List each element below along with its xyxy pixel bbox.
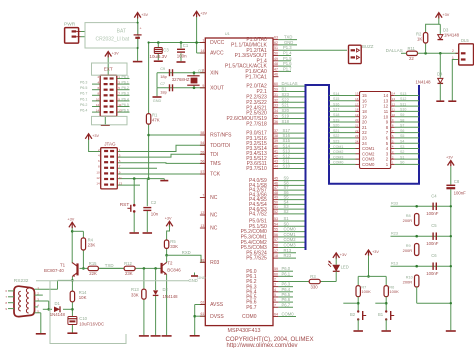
svg-text:S2: S2 xyxy=(284,209,290,214)
svg-text:10uF/16VDC: 10uF/16VDC xyxy=(79,321,104,326)
svg-text:B1: B1 xyxy=(282,87,288,92)
svg-text:AVSS: AVSS xyxy=(210,302,224,308)
svg-text:P6.2: P6.2 xyxy=(80,103,87,107)
svg-text:T1: T1 xyxy=(60,263,66,268)
svg-text:S0: S0 xyxy=(284,221,290,226)
svg-text:BUZZ: BUZZ xyxy=(362,44,374,49)
svg-text:57: 57 xyxy=(201,170,205,174)
svg-text:C4: C4 xyxy=(431,193,437,198)
svg-text:R15: R15 xyxy=(89,261,97,266)
svg-text:P6.3: P6.3 xyxy=(122,92,129,96)
svg-text:S9: S9 xyxy=(400,113,404,117)
svg-text:12: 12 xyxy=(383,104,388,109)
svg-text:R3: R3 xyxy=(310,274,316,279)
svg-text:BC807-40: BC807-40 xyxy=(44,268,64,273)
svg-text:DL5: DL5 xyxy=(461,38,469,43)
svg-text:S13: S13 xyxy=(400,92,406,96)
svg-text:BC846: BC846 xyxy=(167,268,181,273)
svg-text:42: 42 xyxy=(274,154,278,158)
svg-text:+3V: +3V xyxy=(372,250,379,254)
svg-text:COM0: COM0 xyxy=(242,314,257,320)
svg-text:49: 49 xyxy=(274,196,278,200)
svg-text:2: 2 xyxy=(452,49,454,53)
svg-text:S16: S16 xyxy=(333,102,339,106)
svg-text:U1: U1 xyxy=(225,31,231,36)
svg-text:17: 17 xyxy=(274,249,278,253)
svg-text:B1: B1 xyxy=(378,312,384,317)
svg-text:D2: D2 xyxy=(163,287,169,292)
svg-text:100nF: 100nF xyxy=(426,241,439,246)
svg-text:100nF: 100nF xyxy=(426,271,439,276)
svg-text:C10: C10 xyxy=(79,316,87,321)
svg-text:S0: S0 xyxy=(400,161,404,165)
svg-text:100K: 100K xyxy=(389,289,399,294)
svg-text:+3V: +3V xyxy=(446,156,453,160)
svg-text:PWR: PWR xyxy=(64,22,76,28)
svg-text:P6.5: P6.5 xyxy=(80,86,87,90)
svg-text:P6.2: P6.2 xyxy=(122,86,129,90)
svg-text:T2: T2 xyxy=(167,261,173,266)
svg-text:R23: R23 xyxy=(284,253,292,258)
svg-text:18: 18 xyxy=(362,109,367,114)
svg-text:55: 55 xyxy=(201,150,205,154)
svg-text:23K: 23K xyxy=(125,271,133,276)
svg-text:46: 46 xyxy=(274,181,278,185)
svg-text:18p: 18p xyxy=(160,74,167,79)
svg-text:11: 11 xyxy=(119,176,122,180)
svg-text:COPYRIGHT(C), 2004, OLIMEX: COPYRIGHT(C), 2004, OLIMEX xyxy=(226,336,314,343)
svg-text:COM3: COM3 xyxy=(333,155,343,159)
svg-text:10K: 10K xyxy=(79,295,87,300)
svg-text:1N4148: 1N4148 xyxy=(50,312,66,317)
svg-text:62: 62 xyxy=(274,41,278,45)
svg-text:47K: 47K xyxy=(152,117,160,122)
svg-text:10: 10 xyxy=(96,97,100,101)
svg-text:S18: S18 xyxy=(333,113,339,117)
svg-text:100nF: 100nF xyxy=(454,191,467,196)
svg-text:COM0: COM0 xyxy=(362,162,375,167)
svg-text:S20: S20 xyxy=(282,108,290,113)
svg-text:S10: S10 xyxy=(400,108,406,112)
svg-text:17: 17 xyxy=(355,102,359,106)
svg-text:+3V: +3V xyxy=(67,218,74,222)
svg-text:TCK: TCK xyxy=(210,172,221,178)
svg-text:53: 53 xyxy=(274,217,278,221)
svg-text:16: 16 xyxy=(355,97,359,101)
svg-text:RST/NFS: RST/NFS xyxy=(210,133,232,139)
svg-text:COM0: COM0 xyxy=(282,312,295,317)
svg-text:100n: 100n xyxy=(177,54,187,59)
svg-text:P6.7: P6.7 xyxy=(246,305,257,311)
svg-text:22: 22 xyxy=(409,56,414,61)
svg-text:10n: 10n xyxy=(151,212,159,217)
svg-text:39: 39 xyxy=(274,139,278,143)
svg-text:S23: S23 xyxy=(282,92,290,97)
svg-text:R03: R03 xyxy=(210,260,219,266)
svg-text:60: 60 xyxy=(274,272,278,276)
svg-text:LED: LED xyxy=(341,265,349,270)
svg-text:COM1: COM1 xyxy=(284,232,297,237)
svg-text:D4: D4 xyxy=(437,71,443,76)
svg-text:S1: S1 xyxy=(284,216,290,221)
svg-text:22K: 22K xyxy=(89,271,97,276)
svg-text:14: 14 xyxy=(201,49,205,53)
svg-text:COM2: COM2 xyxy=(284,237,297,242)
svg-text:20: 20 xyxy=(355,118,359,122)
svg-text:21: 21 xyxy=(362,125,367,130)
svg-text:24: 24 xyxy=(355,139,359,143)
svg-text:COM0: COM0 xyxy=(284,227,297,232)
svg-text:18: 18 xyxy=(274,254,278,258)
svg-text:1N4148: 1N4148 xyxy=(163,294,179,299)
svg-text:P1.5: P1.5 xyxy=(283,56,292,61)
svg-text:R23: R23 xyxy=(391,232,398,236)
svg-text:59: 59 xyxy=(274,267,278,271)
svg-text:+3V: +3V xyxy=(165,217,172,221)
svg-text:7: 7 xyxy=(274,303,276,307)
svg-text:41: 41 xyxy=(274,149,278,153)
svg-text:1: 1 xyxy=(202,39,204,43)
svg-text:54: 54 xyxy=(274,222,278,226)
svg-text:S14: S14 xyxy=(333,92,339,96)
svg-text:S1: S1 xyxy=(400,155,404,159)
svg-text:5: 5 xyxy=(274,293,276,297)
svg-text:NC: NC xyxy=(210,213,218,219)
svg-text:P6.7: P6.7 xyxy=(80,92,87,96)
svg-text:14: 14 xyxy=(392,92,396,96)
svg-text:P1.6: P1.6 xyxy=(283,61,292,66)
svg-text:S19: S19 xyxy=(282,114,290,119)
svg-text:100K: 100K xyxy=(361,289,371,294)
svg-text:31: 31 xyxy=(274,93,278,97)
svg-text:21: 21 xyxy=(355,124,359,128)
svg-text:P1.7/CA1: P1.7/CA1 xyxy=(245,74,267,80)
svg-text:P5.7/S25: P5.7/S25 xyxy=(246,256,267,262)
svg-text:S17: S17 xyxy=(333,108,339,112)
svg-text:S2: S2 xyxy=(400,150,404,154)
svg-text:13: 13 xyxy=(119,182,123,186)
svg-text:12: 12 xyxy=(392,102,396,106)
svg-text:32: 32 xyxy=(274,98,278,102)
svg-text:S5: S5 xyxy=(400,134,404,138)
svg-text:R13: R13 xyxy=(131,287,139,292)
svg-text:56: 56 xyxy=(274,233,278,237)
svg-text:10: 10 xyxy=(392,113,396,117)
svg-text:P3.7/S10: P3.7/S10 xyxy=(246,166,267,172)
svg-text:Q1: Q1 xyxy=(198,69,203,73)
svg-text:XIN: XIN xyxy=(210,70,219,76)
svg-text:COM3: COM3 xyxy=(284,243,297,248)
svg-text:51: 51 xyxy=(274,46,278,50)
svg-text:C8: C8 xyxy=(454,179,460,184)
svg-text:64: 64 xyxy=(274,313,278,317)
svg-text:33K: 33K xyxy=(131,293,139,298)
svg-text:S4: S4 xyxy=(400,140,404,144)
svg-text:C5: C5 xyxy=(431,223,437,228)
svg-text:18: 18 xyxy=(355,108,359,112)
svg-text:TXD: TXD xyxy=(105,263,114,268)
svg-text:15: 15 xyxy=(355,92,359,96)
svg-text:S10: S10 xyxy=(283,164,291,169)
svg-text:S21: S21 xyxy=(282,103,290,108)
svg-text:51: 51 xyxy=(274,205,278,209)
svg-text:S23: S23 xyxy=(333,140,339,144)
svg-text:COM3: COM3 xyxy=(362,157,375,162)
svg-text:R12: R12 xyxy=(124,261,132,266)
svg-text:+3V: +3V xyxy=(442,13,449,17)
svg-text:GND: GND xyxy=(197,276,206,280)
svg-text:9: 9 xyxy=(202,84,204,88)
svg-text:P6.6: P6.6 xyxy=(122,109,129,113)
svg-text:S22: S22 xyxy=(333,134,339,138)
svg-text:7: 7 xyxy=(202,194,204,198)
svg-text:P6.4: P6.4 xyxy=(80,109,87,113)
svg-text:22: 22 xyxy=(362,130,367,135)
svg-text:330: 330 xyxy=(311,285,319,290)
svg-text:10u/6.3V: 10u/6.3V xyxy=(150,54,168,59)
svg-text:S12: S12 xyxy=(400,97,406,101)
svg-text:14: 14 xyxy=(96,182,100,186)
svg-text:XOUT: XOUT xyxy=(210,85,224,91)
svg-text:C1: C1 xyxy=(183,43,189,48)
svg-text:23K: 23K xyxy=(88,243,96,248)
svg-text:http://www.olimex.com/dev: http://www.olimex.com/dev xyxy=(227,343,298,348)
svg-text:COM1: COM1 xyxy=(333,145,343,149)
svg-text:COM2: COM2 xyxy=(333,150,343,154)
svg-text:12: 12 xyxy=(96,103,100,107)
svg-text:47: 47 xyxy=(274,67,278,71)
svg-text:44: 44 xyxy=(274,165,278,169)
svg-text:MSP430F413: MSP430F413 xyxy=(228,328,261,334)
svg-text:52: 52 xyxy=(274,210,278,214)
svg-text:14: 14 xyxy=(96,109,100,113)
svg-text:4: 4 xyxy=(274,288,276,292)
svg-text:P1.4: P1.4 xyxy=(283,51,292,56)
svg-text:S20: S20 xyxy=(333,124,339,128)
svg-text:13: 13 xyxy=(383,98,388,103)
svg-text:+3V: +3V xyxy=(340,253,347,257)
svg-text:54: 54 xyxy=(201,141,205,145)
svg-text:14: 14 xyxy=(383,93,388,98)
svg-text:+: + xyxy=(140,26,142,30)
svg-text:P1.3: P1.3 xyxy=(283,45,292,50)
svg-text:49: 49 xyxy=(274,57,278,61)
svg-text:40: 40 xyxy=(274,144,278,148)
svg-text:11: 11 xyxy=(392,108,395,112)
svg-text:COM1: COM1 xyxy=(362,146,375,151)
svg-text:EXT: EXT xyxy=(104,67,113,72)
svg-text:60: 60 xyxy=(274,82,278,86)
svg-text:B2: B2 xyxy=(350,312,356,317)
svg-text:17: 17 xyxy=(362,104,367,109)
svg-text:1K: 1K xyxy=(417,37,422,42)
svg-text:R33: R33 xyxy=(391,202,398,206)
svg-text:50: 50 xyxy=(274,200,278,204)
svg-text:RS232: RS232 xyxy=(14,278,29,284)
svg-text:CR2032_LI bat: CR2032_LI bat xyxy=(96,36,130,42)
svg-text:13: 13 xyxy=(201,224,205,228)
svg-text:36: 36 xyxy=(274,120,278,124)
svg-text:1N4148: 1N4148 xyxy=(416,80,432,85)
svg-text:37: 37 xyxy=(274,129,278,133)
svg-text:200R: 200R xyxy=(403,280,413,285)
svg-text:TXD: TXD xyxy=(284,35,292,40)
svg-text:D1: D1 xyxy=(55,301,61,306)
svg-text:55: 55 xyxy=(274,228,278,232)
svg-text:R11: R11 xyxy=(408,46,416,51)
svg-text:47: 47 xyxy=(274,186,278,190)
svg-text:TDI: TDI xyxy=(210,152,218,158)
svg-text:RXD: RXD xyxy=(182,250,191,255)
svg-text:TDO/TDI: TDO/TDI xyxy=(210,143,230,149)
svg-text:P6.4: P6.4 xyxy=(122,97,129,101)
svg-text:P6.1: P6.1 xyxy=(282,271,291,276)
svg-text:P1.7: P1.7 xyxy=(283,66,292,71)
svg-text:S15: S15 xyxy=(333,97,339,101)
svg-text:18p: 18p xyxy=(160,89,167,94)
svg-text:56: 56 xyxy=(201,159,205,163)
svg-text:RST: RST xyxy=(120,202,130,208)
svg-text:61: 61 xyxy=(201,312,205,316)
svg-text:15: 15 xyxy=(362,93,367,98)
svg-text:DALLAS: DALLAS xyxy=(386,48,403,53)
svg-text:TMS: TMS xyxy=(210,161,221,167)
svg-text:S8: S8 xyxy=(400,118,404,122)
svg-text:12: 12 xyxy=(96,176,100,180)
svg-text:AVCC: AVCC xyxy=(210,51,224,57)
svg-text:50: 50 xyxy=(274,52,278,56)
svg-text:S19: S19 xyxy=(333,118,339,122)
svg-text:33K: 33K xyxy=(170,244,178,249)
svg-text:JTAG: JTAG xyxy=(104,142,116,147)
svg-text:20: 20 xyxy=(362,120,367,125)
svg-text:23: 23 xyxy=(362,136,367,141)
svg-text:58: 58 xyxy=(201,131,205,135)
svg-text:NC: NC xyxy=(210,195,218,201)
svg-text:C9: C9 xyxy=(160,67,165,71)
svg-text:10: 10 xyxy=(383,114,388,119)
svg-text:+3V: +3V xyxy=(141,13,148,17)
svg-text:32768HZ: 32768HZ xyxy=(172,77,190,82)
svg-text:COM0: COM0 xyxy=(333,161,343,165)
svg-text:58: 58 xyxy=(274,244,278,248)
svg-text:COM2: COM2 xyxy=(362,151,375,156)
svg-text:S22: S22 xyxy=(282,97,290,102)
svg-text:24: 24 xyxy=(362,141,367,146)
svg-text:2: 2 xyxy=(274,278,276,282)
svg-text:P6.1: P6.1 xyxy=(122,81,129,85)
svg-text:P6.0: P6.0 xyxy=(122,75,129,79)
svg-text:38: 38 xyxy=(274,134,278,138)
svg-text:C6: C6 xyxy=(431,253,437,258)
svg-text:+3V: +3V xyxy=(200,12,207,16)
svg-text:P2.7/S18: P2.7/S18 xyxy=(246,122,267,128)
svg-text:200R: 200R xyxy=(403,248,413,253)
svg-text:62: 62 xyxy=(201,301,205,305)
svg-text:22: 22 xyxy=(355,129,359,133)
svg-text:46: 46 xyxy=(274,73,278,77)
svg-text:DVCC: DVCC xyxy=(210,40,225,46)
svg-text:BAT: BAT xyxy=(117,28,126,34)
svg-text:S11: S11 xyxy=(400,102,406,106)
svg-text:DVSS: DVSS xyxy=(210,314,224,320)
svg-text:33: 33 xyxy=(274,104,278,108)
svg-text:S7: S7 xyxy=(400,124,404,128)
svg-text:1N4148: 1N4148 xyxy=(444,33,460,38)
svg-text:6: 6 xyxy=(274,298,276,302)
svg-text:35: 35 xyxy=(274,115,278,119)
svg-text:19: 19 xyxy=(355,113,359,117)
svg-text:1: 1 xyxy=(452,56,454,60)
svg-text:GND: GND xyxy=(284,40,293,45)
svg-text:19: 19 xyxy=(362,114,367,119)
svg-text:P6.1: P6.1 xyxy=(80,97,87,101)
svg-text:+3V: +3V xyxy=(92,134,99,138)
svg-text:10: 10 xyxy=(96,170,100,174)
svg-text:200R: 200R xyxy=(403,218,413,223)
svg-text:R13: R13 xyxy=(284,248,292,253)
svg-text:C2: C2 xyxy=(151,200,157,205)
svg-text:3: 3 xyxy=(274,283,276,287)
svg-text:48: 48 xyxy=(274,191,278,195)
svg-text:43: 43 xyxy=(274,159,278,163)
svg-text:P6.7: P6.7 xyxy=(282,302,291,307)
svg-text:23: 23 xyxy=(355,134,359,138)
svg-text:C7: C7 xyxy=(160,82,165,86)
svg-text:C3: C3 xyxy=(163,48,169,53)
svg-text:S3: S3 xyxy=(400,145,404,149)
svg-text:45: 45 xyxy=(274,177,278,181)
svg-text:+3V: +3V xyxy=(112,52,119,56)
svg-text:NC: NC xyxy=(210,226,218,232)
svg-text:R13: R13 xyxy=(391,262,398,266)
svg-text:P6.3: P6.3 xyxy=(80,81,87,85)
svg-text:100nF: 100nF xyxy=(426,211,439,216)
svg-text:59: 59 xyxy=(274,88,278,92)
svg-text:63: 63 xyxy=(274,36,278,40)
svg-text:S18: S18 xyxy=(282,119,290,124)
svg-text:12: 12 xyxy=(201,211,205,215)
svg-text:57: 57 xyxy=(274,238,278,242)
svg-text:P4.7/S2: P4.7/S2 xyxy=(249,212,267,218)
svg-text:48: 48 xyxy=(201,258,205,262)
svg-text:16: 16 xyxy=(362,98,367,103)
svg-text:34: 34 xyxy=(274,109,278,113)
svg-text:13: 13 xyxy=(392,97,396,101)
svg-text:DALLAS: DALLAS xyxy=(282,81,298,86)
svg-text:S21: S21 xyxy=(333,129,339,133)
svg-text:S6: S6 xyxy=(400,129,404,133)
svg-text:P6.5: P6.5 xyxy=(122,103,129,107)
svg-text:GND: GND xyxy=(153,99,162,103)
svg-text:48: 48 xyxy=(274,62,278,66)
svg-text:11: 11 xyxy=(384,109,389,114)
